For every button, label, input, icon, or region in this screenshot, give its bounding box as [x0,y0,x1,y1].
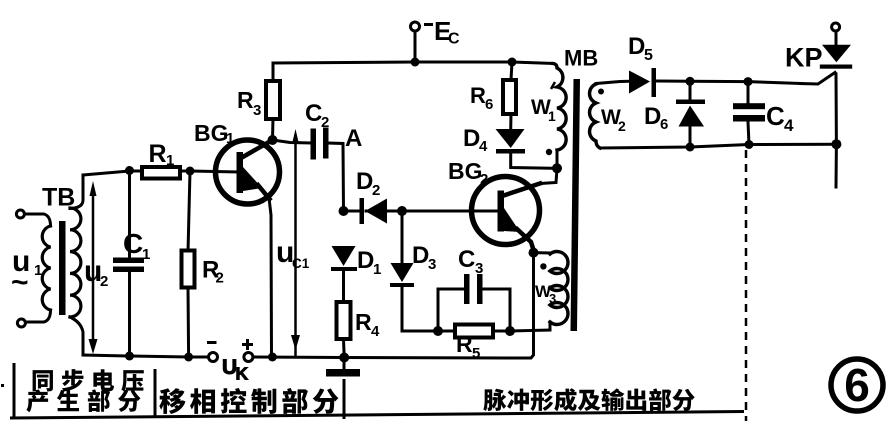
svg-text:C1: C1 [292,256,310,271]
wire D2 row to BG2 base [348,210,497,213]
wire top -Ec supply rail [273,62,553,64]
wire R6 top [511,62,512,80]
label W3 [535,282,556,306]
label W1 prime [531,82,556,124]
node C1 top junction [125,166,134,175]
node D6 bottom junction [686,143,695,152]
label R5 [456,331,480,362]
section divider dashed line [745,150,748,421]
svg-text:R: R [149,140,167,168]
wire TB secondary bottom lead [70,317,83,355]
label uC1 [276,236,310,271]
node BG1 collector junction [268,135,278,145]
svg-text:3: 3 [549,291,556,306]
svg-text:R: R [237,87,254,113]
terminal KP anode [832,23,840,31]
label section 3 (mai chong xing cheng ji shu chu bu fen) [483,388,695,411]
label u1 [11,245,42,299]
diode D1 [331,246,357,271]
label W2 [601,106,626,134]
wire D4 to collector node [511,153,557,168]
svg-text:5: 5 [472,345,480,362]
label u2 [84,255,108,290]
svg-text:C: C [766,101,785,131]
svg-text:MB: MB [564,46,598,71]
node BG2 emitter junction [529,248,539,258]
label R1 [149,140,175,169]
diode D2 [360,198,388,224]
node D3 top junction [397,206,407,216]
wire left top rail (u2 to BG1 base) [83,171,238,175]
wire KP gate diagonal [800,73,835,85]
wire Ec terminal drop [414,31,417,62]
svg-text:1: 1 [142,246,150,263]
svg-text:D: D [412,242,429,269]
label C1 [123,228,150,263]
transistor BG2 [472,177,541,251]
label R2 [202,257,224,287]
diode D6 [676,100,705,127]
svg-text:6: 6 [844,359,870,411]
terminal u1 bottom [17,319,25,327]
svg-text:C: C [305,100,322,127]
label R6 [470,83,493,113]
resistor R3 [266,81,280,119]
figure number 6 [831,359,883,411]
W1 polarity dot [546,149,552,155]
wire C3 right riser [481,289,510,331]
wire BG2 collector [540,169,557,184]
transformer TB primary winding [42,226,50,310]
transistor BG1 [216,140,280,204]
speck [1,384,4,387]
svg-text:2: 2 [480,171,488,188]
W2 polarity dot [598,89,604,95]
wire BG2 emitter to W3 top [534,251,551,254]
label section 2 (yi xiang kong zhi bu fen) [159,388,338,414]
svg-text:K: K [236,364,249,384]
svg-text:R: R [456,331,473,357]
label KP [785,43,823,73]
svg-text:4: 4 [479,138,488,155]
section divider tick 3 [343,379,346,419]
terminal u1 top [16,210,24,218]
wire C3 left riser [438,289,463,331]
diode D5 [629,68,656,97]
label D3 [412,242,436,273]
label BG1 [194,120,234,147]
label D6 [644,103,668,133]
node junction at Ec drop [411,58,420,67]
svg-text:~: ~ [11,266,29,299]
ground [326,357,360,377]
transformer MB core [571,79,581,331]
svg-text:6: 6 [485,96,493,113]
label D1 [357,247,381,278]
svg-text:2: 2 [372,182,380,199]
svg-text:2: 2 [618,118,626,134]
wire W2 bottom row [600,144,836,148]
svg-text:2: 2 [216,270,224,287]
resistor R5 [455,325,493,338]
node R5 C3 left junction [433,326,443,336]
wire C1 branch [128,171,131,357]
node u2 voltage arrow [89,181,98,354]
svg-text:A: A [345,125,362,152]
W3 polarity dot [540,263,546,269]
wire D3 branch [402,211,433,331]
wire KP anode lead [835,31,838,45]
terminal UK plus [244,353,253,362]
label D5 [628,33,653,64]
node C1 bottom junction [125,352,134,361]
svg-text:R: R [470,83,486,108]
svg-text:1: 1 [166,152,174,169]
capacitor C2 [311,128,329,160]
node W1 bottom / collector junction [552,163,562,173]
resistor R1 [142,167,180,179]
node D6 top junction [686,77,695,86]
capacitor C4 [733,103,765,121]
wire D6 branch [689,81,692,147]
thyristor KP [820,45,852,69]
wire R3 branch top [272,63,275,82]
wire R5 right to W3 bottom [510,330,550,331]
wire node A branch (C2 right to D2/D1) [328,143,344,211]
wire BG1 emitter drop [269,198,272,357]
svg-text:4: 4 [784,116,794,135]
svg-text:C: C [458,246,475,273]
node R6 top junction [508,58,517,67]
transformer MB winding W3 [550,252,568,331]
label D4 [463,125,488,155]
terminal -Ec [411,22,420,31]
svg-text:1: 1 [34,262,42,279]
svg-text:1: 1 [226,130,234,147]
label section 1 line 1 (tong bu dian ya) [33,369,144,391]
transformer MB winding W2 [590,84,600,148]
svg-text:C: C [448,31,460,48]
svg-text:TB: TB [42,184,75,212]
wire collector to C2 [273,140,312,143]
label R4 [355,309,380,340]
svg-text:1: 1 [373,261,381,278]
svg-text:D: D [357,247,374,274]
label C4 [766,101,794,135]
label TB [42,184,75,212]
wire u1 top lead [25,214,51,226]
capacitor C1 [113,258,144,273]
svg-text:4: 4 [371,323,380,340]
svg-text:1: 1 [548,108,556,124]
node A / D2 D1 junction [339,206,349,216]
svg-text:2: 2 [100,273,108,290]
section divider tick 2 [154,369,157,417]
capacitor C3 [464,274,483,304]
label -EC [424,16,460,48]
wire output stub [835,144,838,187]
svg-text:BG: BG [194,120,229,146]
wire C4 branch [748,82,749,145]
node R2 bottom junction [184,353,193,362]
section bottom line [10,412,744,419]
svg-text:6: 6 [660,116,668,133]
wire R4 to ground rail [342,339,346,358]
wire W2 top row [596,81,800,84]
label C2 [305,100,329,131]
svg-text:R: R [355,309,372,335]
node C4 bottom junction [745,140,754,149]
node uC1 voltage arrow [291,129,300,356]
wire bottom rail left [83,355,209,357]
svg-text:D: D [644,103,661,130]
label BG2 [448,158,488,188]
resistor R4 [337,302,351,339]
svg-text:2: 2 [321,114,329,131]
diode D4 [496,129,526,154]
wire D1 to R4 [342,270,345,302]
label MB [564,46,598,71]
resistor R2 [182,251,195,288]
svg-text:BG: BG [448,158,483,184]
label A [345,125,362,152]
node C4 top junction [744,77,753,86]
wire u1 bottom lead [26,310,51,322]
svg-text:3: 3 [253,102,261,119]
svg-text:C: C [123,228,143,259]
svg-text:KP: KP [785,43,823,73]
transformer TB secondary winding [70,208,81,317]
label section 1 line 2 (chan sheng bu fen) [26,389,140,412]
node R2 top junction [186,167,195,176]
label C3 [458,246,483,277]
label UK with polarity [207,339,253,384]
section divider left tick [13,363,16,419]
node R5 C3 right junction [505,326,515,336]
node KP cathode bottom junction [831,139,841,149]
svg-text:5: 5 [644,47,653,64]
wire R6 to D4 [509,114,512,129]
node BG1 emitter bottom junction [268,353,277,362]
label D2 [356,168,380,199]
resistor R6 [503,80,516,114]
diode D3 [390,263,414,287]
wire KP cathode [835,74,838,144]
wire R5 leads [438,330,510,333]
svg-text:3: 3 [428,256,436,273]
terminal UK minus [209,353,218,362]
svg-text:D: D [356,168,373,195]
wire TB secondary top lead [70,175,83,209]
wire bottom rail middle [253,253,534,358]
svg-text:3: 3 [475,260,483,277]
svg-text:D: D [628,33,645,60]
transformer MB winding W1 [553,64,566,169]
wire R2 branch [188,171,190,357]
svg-text:D: D [463,125,480,152]
wire R3 to BG1 collector [271,118,275,140]
node ground junction [339,353,349,363]
label R3 [237,87,261,119]
transformer TB core [59,221,66,315]
